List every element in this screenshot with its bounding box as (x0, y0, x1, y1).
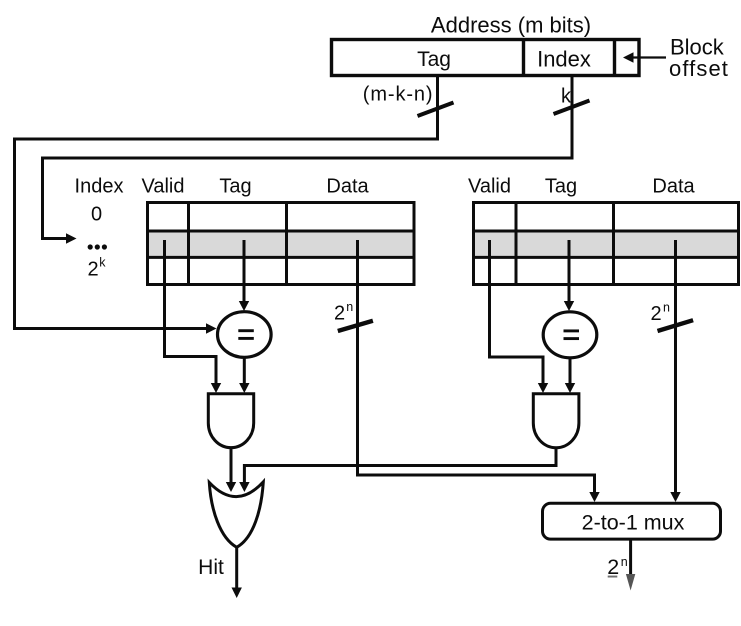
svg-text:n: n (621, 555, 628, 569)
svg-text:Address (m bits): Address (m bits) (431, 13, 591, 38)
svg-text:Tag: Tag (219, 176, 251, 198)
svg-text:Data: Data (652, 176, 695, 198)
svg-text:2: 2 (651, 303, 662, 325)
svg-text:Valid: Valid (468, 176, 511, 198)
svg-text:Index: Index (75, 176, 124, 198)
svg-text:2: 2 (334, 303, 345, 325)
svg-text:Data: Data (326, 176, 369, 198)
svg-text:Tag: Tag (545, 176, 577, 198)
svg-text:offset: offset (669, 56, 729, 81)
svg-text:Tag: Tag (417, 48, 451, 71)
svg-text:2: 2 (607, 555, 619, 579)
svg-text:n: n (346, 300, 353, 314)
svg-text:(m-k-n): (m-k-n) (363, 84, 434, 106)
svg-text:2-to-1 mux: 2-to-1 mux (582, 511, 685, 535)
svg-text:k: k (561, 86, 572, 108)
svg-text:n: n (663, 301, 670, 315)
svg-text:2: 2 (87, 259, 98, 281)
svg-text:Hit: Hit (198, 556, 224, 579)
svg-text:0: 0 (91, 204, 102, 226)
svg-text:k: k (99, 256, 106, 270)
svg-text:Index: Index (537, 47, 591, 72)
svg-text:Valid: Valid (142, 176, 185, 198)
